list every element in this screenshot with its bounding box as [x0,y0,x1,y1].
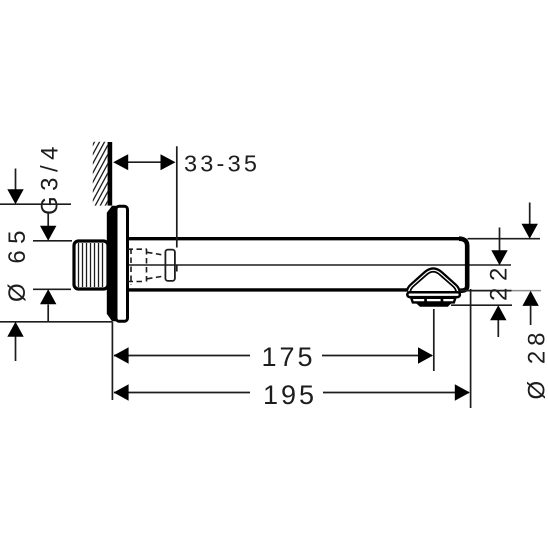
dim Ø28 bottom arrow [530,306,532,325]
threaded nipple G3/4 body [74,241,108,289]
dim 175 right arrow [418,347,433,363]
svg-text:33-35: 33-35 [184,151,260,177]
aerator outlet (black) [415,302,452,306]
thread lines [79,243,103,287]
dim 195 left arrow [114,384,129,400]
dim 175 left arrow [114,347,129,363]
extension line thread bottom [33,288,71,290]
svg-text:Ø 28: Ø 28 [524,327,548,399]
extension line spout end for 195 [470,289,472,408]
dim 195 right arrow [455,384,470,400]
dim Ø28 top extension [468,238,541,240]
dim Ø65 top arrow [15,169,17,191]
spout top edge [127,237,461,240]
dim 22 bottom arrow [497,320,499,337]
svg-text:2 2: 2 2 [486,268,513,301]
extension line flange bottom [0,321,113,323]
dim 33-35 extension line [176,146,178,247]
wall hatch [90,113,110,243]
extension line flange top [0,203,71,205]
dim 22 bottom extension [451,304,512,306]
spout right end [458,239,467,291]
centerline of spout [104,264,512,266]
spout bottom edge [127,288,409,291]
dim Ø28 top arrow [529,203,531,226]
dim 33-35 left arrow [113,154,128,170]
dim 195 line [114,392,250,394]
aerator face dividers [424,298,427,303]
extension line left (wall) for 175/195 [111,322,113,400]
aerator face box [411,298,455,303]
svg-text:G3/4: G3/4 [37,141,64,215]
escutcheon rear (black) part [107,206,117,321]
escutcheon front plate [116,206,128,321]
dim Ø65 bottom arrow [15,336,17,361]
aerator cover inner line [410,272,456,292]
aerator collar [407,292,460,297]
dim G3/4 bottom arrow [47,305,49,322]
svg-text:195: 195 [263,380,317,410]
hidden connector dashed outline [128,249,165,286]
dim 33-35 right arrow [161,154,176,170]
svg-text:175: 175 [261,342,315,372]
dim Ø28 bottom extension [460,290,512,292]
hidden connector ring [165,250,175,281]
wall surface line [108,142,113,206]
dim 175 line [114,355,250,357]
extension line thread top [33,240,72,242]
dim 33-35 line [128,161,161,163]
extension line aerator for 175 [433,309,435,371]
dim 22 top arrow [499,228,501,252]
dim G3/4 top arrow [47,213,49,228]
aerator cover (tent) outer [407,268,460,291]
svg-text:Ø 65: Ø 65 [4,224,31,302]
